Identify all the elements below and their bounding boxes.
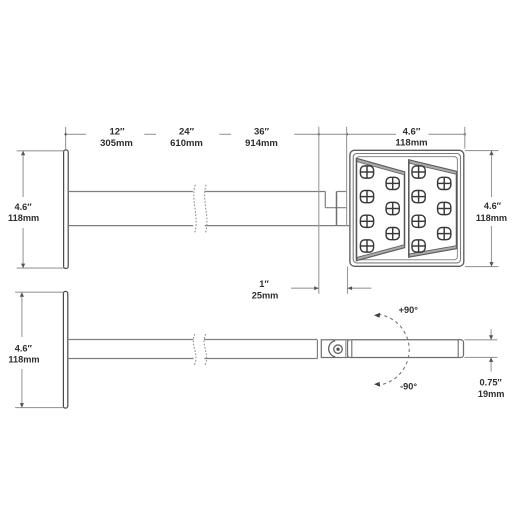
svg-text:-90°: -90° <box>400 381 417 391</box>
head middle frame <box>353 154 460 263</box>
left LED panel <box>357 159 405 261</box>
wall mount plate (edge-on) <box>64 150 69 269</box>
pivot block <box>321 340 348 358</box>
svg-text:+90°: +90° <box>399 305 419 315</box>
svg-text:4.6″: 4.6″ <box>15 202 33 212</box>
head slab right end cap line <box>457 340 459 357</box>
extension line top-left <box>15 291 63 293</box>
knot at head right face tick <box>464 133 466 135</box>
witness line at plate face <box>65 127 67 150</box>
LEDs right panel column 1 <box>412 166 425 178</box>
right 4.6in dimension of head <box>465 150 499 152</box>
extension line at head left face (runs down to bracket) <box>346 127 348 226</box>
svg-text:1″: 1″ <box>259 279 269 289</box>
arm end cap <box>316 340 318 359</box>
svg-text:4.6″: 4.6″ <box>403 126 421 137</box>
svg-text:25mm: 25mm <box>252 290 279 300</box>
svg-text:36″: 36″ <box>254 126 270 137</box>
pivot circle <box>334 345 343 354</box>
arrowhead up <box>21 151 25 156</box>
arm bottom line <box>68 225 193 227</box>
arm side view top line <box>68 339 193 341</box>
pivot center dot <box>336 348 339 351</box>
extension line at head left face (below head) <box>347 267 349 294</box>
break symbol (bottom view) <box>193 334 196 365</box>
hinge knuckle D-shape <box>329 341 336 357</box>
arrowhead down <box>21 264 25 269</box>
svg-text:19mm: 19mm <box>478 389 505 399</box>
extension line at arm end (down to 1in dim) <box>318 127 320 294</box>
dimension extension line top-left (plate top) <box>17 150 64 152</box>
head slab (side view) <box>348 340 464 358</box>
svg-text:118mm: 118mm <box>395 138 427 149</box>
knot at head left face tick <box>346 133 348 135</box>
break symbol (top view) <box>194 185 196 233</box>
arrowhead bottom (points left) <box>374 382 380 387</box>
svg-text:914mm: 914mm <box>245 138 278 149</box>
hinge flat side <box>345 340 347 357</box>
svg-text:118mm: 118mm <box>8 355 39 365</box>
vertical dimension line 4.6in left <box>22 151 24 197</box>
wall mount plate (side) <box>63 291 67 408</box>
right LED panel <box>409 160 457 257</box>
svg-text:305mm: 305mm <box>100 138 133 149</box>
rotation arc +/-90 <box>378 314 409 385</box>
extension line bottom-left <box>15 407 63 409</box>
LEDs right panel column 2 <box>438 177 451 189</box>
svg-text:118mm: 118mm <box>8 213 39 223</box>
head outer housing <box>350 150 464 266</box>
extension line at head right face (above head) <box>464 127 466 149</box>
svg-text:24″: 24″ <box>179 126 195 137</box>
LEDs left panel column 1 <box>360 166 450 252</box>
svg-text:12″: 12″ <box>109 126 125 137</box>
svg-text:118mm: 118mm <box>476 213 507 223</box>
bracket step at arm end <box>324 192 326 208</box>
knot at arm end tick <box>318 133 320 135</box>
svg-text:0.75″: 0.75″ <box>480 378 503 388</box>
horizontal dimension line with arm lengths <box>66 133 86 135</box>
arrowhead top (points left) <box>374 313 380 318</box>
arm side view bottom line <box>68 358 194 360</box>
LEDs left panel column 2 <box>386 177 399 189</box>
head slab left end cap line <box>351 340 353 357</box>
vertical dimension line 4.6in left bottom view <box>21 293 23 337</box>
head tray rim <box>356 157 457 260</box>
arm top line <box>68 191 193 193</box>
dimension extension line bottom-left (plate bottom) <box>17 267 64 269</box>
0.75in 19mm dimension <box>465 339 498 341</box>
1in 25mm dimension <box>291 287 319 289</box>
svg-text:610mm: 610mm <box>170 138 203 149</box>
svg-text:4.6″: 4.6″ <box>15 344 33 354</box>
svg-text:4.6″: 4.6″ <box>484 201 502 211</box>
